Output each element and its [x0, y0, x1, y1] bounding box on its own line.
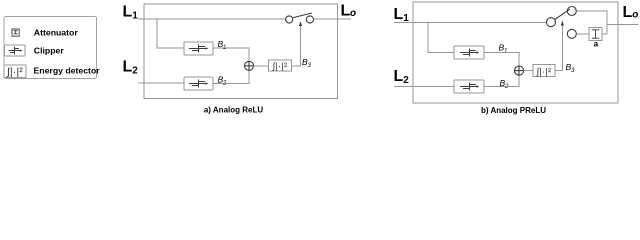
svg-text:Energy detector: Energy detector [34, 66, 101, 76]
wire L2 (a) [139, 82, 185, 84]
svg-text:L: L [341, 2, 351, 19]
svg-text:o: o [632, 10, 638, 21]
summing node (b) [514, 66, 523, 75]
label L2 (a) [123, 58, 139, 76]
svg-text:L: L [123, 58, 133, 75]
control wire B3 to switch (b) [555, 25, 562, 71]
clipper B1 (b) [454, 46, 484, 59]
control wire B3 to switch (a) [292, 25, 301, 66]
svg-text:Clipper: Clipper [34, 46, 65, 56]
switch common contact (b) [547, 18, 556, 27]
switch lower throw contact (b) [567, 29, 576, 38]
label B2 (b) [500, 78, 510, 90]
wire L1 drop to B1 (a) [157, 19, 184, 48]
legend text Attenuator [34, 27, 79, 37]
wire attenuator to output bus (b) [602, 33, 607, 35]
label B1 (b) [499, 43, 508, 55]
label Lo (b) [623, 4, 639, 21]
label B3 (a) [302, 57, 312, 69]
attenuator a (b) [589, 28, 602, 41]
legend text Energy detector [34, 66, 101, 76]
svg-text:o: o [350, 8, 356, 19]
wire B2 to summing node (a) [213, 70, 249, 83]
label L1 (a) [123, 4, 139, 22]
caption b [481, 106, 546, 115]
svg-text:Attenuator: Attenuator [34, 27, 79, 37]
control arrowhead (b) [561, 21, 564, 26]
wire switch to Lo (a) [314, 18, 352, 20]
svg-text:L: L [394, 6, 404, 23]
wire B1 to summing node (b) [484, 53, 519, 67]
label B3 (b) [566, 62, 576, 74]
svg-text:∫|·|²: ∫|·|² [272, 61, 288, 71]
wire L2 (b) [394, 85, 454, 87]
wire lower throw to attenuator (b) [576, 33, 589, 35]
attenuator legend symbol [12, 29, 19, 36]
svg-text:1: 1 [504, 49, 507, 55]
caption a [204, 106, 263, 115]
legend text Clipper [34, 46, 65, 56]
svg-text:b) Analog PReLU: b) Analog PReLU [481, 106, 546, 115]
clipper B2 (a) [184, 77, 213, 90]
svg-text:2: 2 [132, 66, 138, 77]
label L2 (b) [394, 68, 410, 86]
wire summing node to B3 (a) [254, 65, 269, 67]
label Lo (a) [341, 2, 357, 19]
clipper B2 (b) [454, 80, 484, 93]
wire output to Lo (b) [607, 23, 639, 25]
summing node (a) [245, 61, 254, 70]
svg-text:2: 2 [403, 75, 409, 86]
wire B2 to summing node (b) [484, 75, 519, 86]
wire L1 (b) [394, 22, 547, 24]
svg-text:L: L [123, 4, 133, 21]
wire B1 to summing node (a) [213, 48, 249, 61]
svg-text:L: L [623, 4, 633, 21]
switch upper throw contact (b) [567, 7, 576, 16]
wire upper throw to output bus (b) [576, 11, 607, 34]
svg-text:∫|·|²: ∫|·|² [6, 67, 23, 78]
switch (a) [286, 13, 314, 23]
wire summing node to B3 (b) [524, 70, 533, 72]
legend frame [4, 16, 97, 78]
outer box (b) [413, 2, 618, 103]
wire L1 (a) [138, 18, 286, 20]
svg-text:a) Analog ReLU: a) Analog ReLU [204, 106, 263, 115]
svg-text:1: 1 [132, 11, 138, 22]
outer box (a) [144, 4, 338, 98]
label B2 (a) [218, 74, 228, 86]
label B1 (a) [218, 39, 227, 51]
label L1 (b) [394, 6, 410, 24]
clipper legend symbol [5, 45, 26, 56]
svg-text:∫|·|²: ∫|·|² [536, 66, 552, 76]
energy detector B3 (b) [533, 64, 555, 76]
svg-text:L: L [394, 68, 404, 85]
control arrowhead (a) [299, 21, 302, 26]
clipper B1 (a) [184, 42, 213, 55]
wire L1 drop to B1 (b) [428, 23, 454, 53]
svg-text:a: a [594, 40, 599, 49]
switch lever (b) [555, 9, 570, 19]
energy detector legend symbol [4, 65, 26, 78]
label a (b) [594, 40, 599, 49]
svg-text:3: 3 [308, 63, 312, 69]
energy detector B3 (a) [269, 60, 292, 71]
svg-text:3: 3 [571, 68, 575, 74]
